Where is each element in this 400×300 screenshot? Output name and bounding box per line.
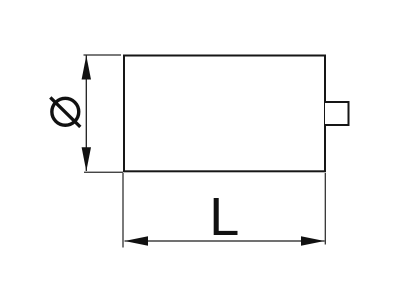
svg-text:L: L (209, 187, 239, 247)
